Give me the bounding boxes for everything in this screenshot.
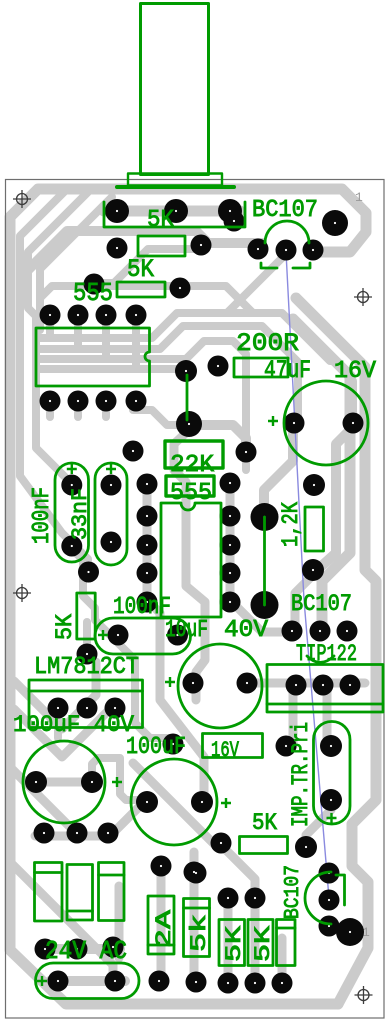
svg-text:16V: 16V <box>334 358 377 385</box>
svg-text:555: 555 <box>73 278 113 308</box>
svg-text:100nF: 100nF <box>113 594 171 621</box>
svg-text:555: 555 <box>170 480 212 507</box>
svg-text:100uF 40V: 100uF 40V <box>13 712 134 738</box>
svg-text:24V AC: 24V AC <box>45 936 127 966</box>
svg-text:5K: 5K <box>52 614 78 640</box>
svg-text:BC107: BC107 <box>291 591 352 617</box>
svg-text:BC107: BC107 <box>282 865 305 919</box>
svg-text:5K: 5K <box>252 810 277 836</box>
svg-text:TIP122: TIP122 <box>296 641 357 667</box>
svg-text:2A: 2A <box>152 909 177 948</box>
svg-text:1,2K: 1,2K <box>278 502 304 547</box>
svg-text:5K: 5K <box>222 925 247 962</box>
svg-text:100uF: 100uF <box>126 734 186 761</box>
svg-text:LM7812CT: LM7812CT <box>34 654 139 681</box>
svg-text:5K: 5K <box>147 207 175 234</box>
svg-text:47uF: 47uF <box>264 356 311 385</box>
svg-text:5K: 5K <box>251 925 276 962</box>
svg-text:100nF: 100nF <box>29 487 56 544</box>
svg-text:5k: 5k <box>187 914 212 952</box>
svg-text:5K: 5K <box>127 255 154 284</box>
svg-text:16V: 16V <box>211 738 240 763</box>
svg-text:IMP.TR.Pri: IMP.TR.Pri <box>288 722 314 827</box>
svg-text:200R: 200R <box>236 329 299 358</box>
svg-text:10uF: 10uF <box>165 617 208 644</box>
svg-text:22K: 22K <box>170 452 215 479</box>
svg-text:BC107: BC107 <box>252 197 318 224</box>
svg-text:33nF: 33nF <box>68 488 93 540</box>
svg-text:40V: 40V <box>224 617 269 644</box>
svg-text:1: 1 <box>355 190 363 205</box>
